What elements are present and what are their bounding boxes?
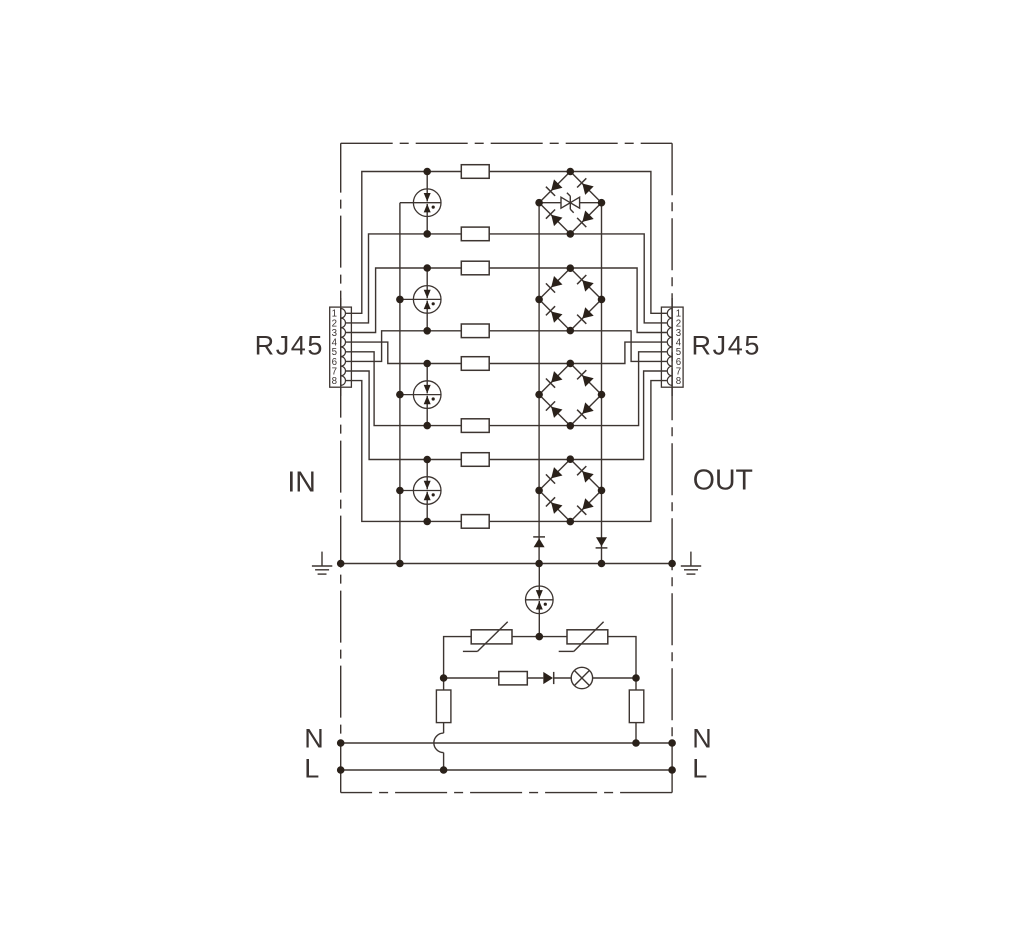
wire between varistors	[512, 636, 567, 638]
wire pair line 5 right (bridge to J2 pin 4)	[570, 342, 667, 363]
bridge B1 diode bottom-right	[577, 211, 594, 228]
bridge B2 diode bottom-right	[577, 307, 594, 324]
bridge B2 diode top-right	[577, 275, 594, 292]
wire varistor row left	[444, 637, 472, 678]
wire pair line 3 left (J1 pin 3 to resistor)	[346, 268, 462, 333]
diode bridge B3 frame	[539, 363, 601, 425]
wire pair line 5 middle (resistor to bridge)	[489, 363, 570, 365]
wire indicator row left	[444, 677, 499, 679]
junction dots GDT bus	[396, 296, 404, 495]
wire pair line 8 middle (resistor to bridge)	[489, 520, 570, 522]
RJ45 connector J2 (right)	[661, 307, 683, 387]
bridge B1 diode top-left	[546, 179, 563, 196]
bridge B3 diode bottom-right	[577, 402, 594, 419]
diode bridge B2 frame	[539, 268, 601, 330]
wire pair line 1 right (bridge to J2 pin 1)	[570, 172, 667, 314]
junction dots earth bus	[337, 560, 676, 568]
gas discharge tube G4	[400, 460, 441, 522]
resistor R7	[461, 453, 489, 467]
device enclosure border (dash-dot)	[341, 143, 672, 792]
bridge B2 diode top-left	[546, 276, 563, 293]
wire lamp to right branch	[593, 677, 636, 679]
bridge B3 diode top-left	[546, 371, 563, 388]
protective earth bus wire	[341, 563, 672, 565]
bridge B4 diode top-right	[577, 466, 594, 483]
resistor R9	[499, 672, 528, 685]
resistor R4	[461, 324, 489, 338]
ground symbol left	[312, 552, 332, 575]
wire varistor row right	[608, 637, 636, 678]
svg-text:OUT: OUT	[693, 465, 753, 497]
wire pair line 2 middle (resistor to bridge)	[489, 233, 570, 235]
diode bridge B1 frame	[539, 172, 601, 234]
gas discharge tube G3	[400, 364, 441, 426]
wire pair line 6 right (bridge to J2 pin 5)	[570, 352, 667, 426]
N line wire	[341, 742, 672, 744]
gas discharge tube G2	[400, 268, 441, 331]
svg-text:L: L	[692, 754, 707, 784]
wire pair line 8 right (bridge to J2 pin 8)	[570, 381, 667, 522]
junction dot varistor midpoint	[536, 633, 544, 641]
resistor R5	[461, 357, 489, 371]
wire pair line 6 left (J1 pin 5 to resistor)	[346, 352, 462, 426]
wire pair line 4 middle (resistor to bridge)	[489, 330, 570, 332]
steering diode D- (right bus to ground)	[596, 537, 608, 548]
wire ground to gas discharge tube G5	[538, 564, 540, 587]
wire hop over N line	[434, 733, 444, 753]
bridge B3 diode bottom-left	[546, 401, 563, 418]
junction dots bridge nodes	[535, 168, 605, 526]
svg-text:8: 8	[332, 376, 337, 387]
steering diode D+ (left bus to ground)	[533, 537, 545, 547]
bridge B3 diode top-right	[577, 370, 594, 387]
svg-text:RJ45: RJ45	[255, 331, 324, 361]
border solid segment through J2	[671, 298, 673, 396]
wire D9 to lamp	[554, 677, 572, 679]
border solid segment through J1	[340, 298, 342, 396]
svg-text:N: N	[304, 723, 324, 753]
resistor R3	[461, 261, 489, 275]
right clamp bus wire	[601, 203, 603, 564]
wire hop to L line	[443, 753, 445, 770]
varistor RV1	[463, 622, 512, 652]
indicator lamp LP1	[571, 667, 592, 688]
wire G5 to varistor junction	[538, 614, 540, 637]
fuse F1	[436, 678, 451, 733]
L line wire	[341, 769, 672, 771]
fuse F2	[629, 678, 644, 743]
bidirectional TVS diode in bridge B1	[539, 193, 601, 213]
junction dots N line	[337, 739, 676, 747]
bridge B1 diode bottom-left	[546, 210, 563, 227]
junction dots L line	[337, 766, 676, 774]
ground symbol right	[681, 552, 701, 575]
gas discharge tube G5	[526, 586, 554, 614]
svg-text:N: N	[692, 723, 712, 753]
wire pair line 2 right (bridge to J2 pin 2)	[570, 234, 667, 323]
resistor R6	[461, 419, 489, 433]
RJ45 connector J1 (left)	[330, 307, 352, 387]
wire pair line 1 middle (resistor to bridge)	[489, 171, 570, 173]
GDT common electrode bus	[399, 203, 401, 564]
svg-text:L: L	[304, 754, 319, 784]
wire pair line 4 right (bridge to J2 pin 6)	[570, 331, 667, 362]
resistor R2	[461, 227, 489, 241]
wire R9 to D9	[527, 677, 543, 679]
wire pair line 6 middle (resistor to bridge)	[489, 425, 570, 427]
wire pair line 3 middle (resistor to bridge)	[489, 267, 570, 269]
wire pair line 8 left (J1 pin 8 to resistor)	[346, 381, 462, 522]
wire pair line 7 middle (resistor to bridge)	[489, 459, 570, 461]
bridge B4 diode top-left	[546, 467, 563, 484]
svg-text:RJ45: RJ45	[692, 331, 761, 361]
wire pair line 2 left (J1 pin 2 to resistor)	[346, 234, 462, 323]
gas discharge tube G1	[400, 172, 441, 234]
wire pair line 7 right (bridge to J2 pin 7)	[570, 371, 667, 460]
wire pair line 3 right (bridge to J2 pin 3)	[570, 268, 667, 333]
resistor R1	[461, 165, 489, 179]
wire pair line 1 left (J1 pin 1 to resistor)	[346, 172, 462, 314]
diode D9	[543, 672, 553, 684]
wire pair line 7 left (J1 pin 7 to resistor)	[346, 371, 462, 460]
left clamp bus wire	[538, 203, 540, 564]
varistor RV2	[559, 622, 608, 652]
junction dots indicator row	[440, 674, 640, 682]
bridge B4 diode bottom-right	[577, 498, 594, 515]
bridge B2 diode bottom-left	[546, 306, 563, 323]
resistor R8	[461, 515, 489, 529]
bridge B4 diode bottom-left	[546, 497, 563, 514]
junction dots GDT column on rows	[423, 168, 431, 526]
diode bridge B4 frame	[539, 459, 601, 521]
svg-text:8: 8	[676, 376, 681, 387]
wire pair line 4 left (J1 pin 6 to resistor)	[346, 331, 462, 362]
svg-text:IN: IN	[287, 466, 316, 498]
wire pair line 5 left (J1 pin 4 to resistor)	[346, 342, 462, 363]
bridge B1 diode top-right	[577, 178, 594, 195]
